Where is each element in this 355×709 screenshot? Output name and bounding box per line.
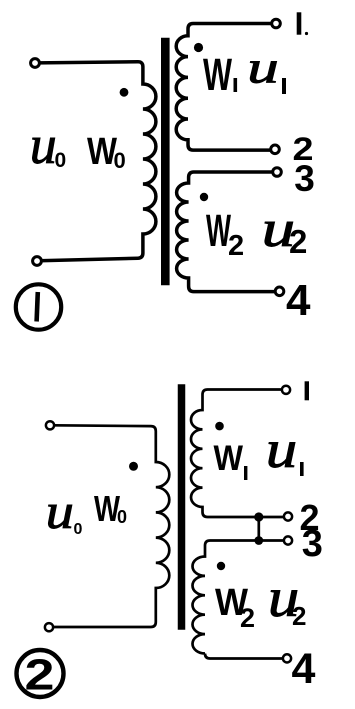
svg-text:0: 0 <box>117 507 127 527</box>
svg-text:2: 2 <box>289 223 307 260</box>
svg-text:u: u <box>247 42 278 93</box>
svg-text:2: 2 <box>292 601 306 631</box>
svg-text:0: 0 <box>55 149 67 172</box>
svg-text:4: 4 <box>292 645 316 693</box>
svg-text:0: 0 <box>74 521 83 538</box>
svg-text:3: 3 <box>302 523 323 565</box>
svg-text:3: 3 <box>294 158 315 199</box>
svg-text:4: 4 <box>286 276 311 325</box>
svg-text:2: 2 <box>240 603 255 633</box>
svg-text:u: u <box>46 483 74 539</box>
svg-text:0: 0 <box>114 148 126 173</box>
svg-text:W: W <box>203 49 232 100</box>
svg-text:u: u <box>266 421 298 479</box>
svg-text:u: u <box>30 115 57 175</box>
svg-text:2: 2 <box>25 651 55 700</box>
svg-text:W: W <box>214 439 244 478</box>
svg-text:2: 2 <box>228 230 244 262</box>
